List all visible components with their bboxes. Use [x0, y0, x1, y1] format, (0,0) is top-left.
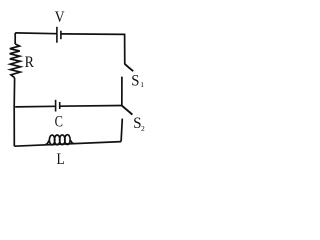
svg-text:V: V: [55, 9, 65, 26]
svg-text:R: R: [25, 54, 35, 71]
svg-text:S: S: [131, 72, 139, 89]
svg-text:1: 1: [140, 80, 144, 89]
svg-text:2: 2: [141, 124, 145, 133]
svg-text:C: C: [55, 114, 63, 131]
svg-text:L: L: [57, 151, 65, 168]
